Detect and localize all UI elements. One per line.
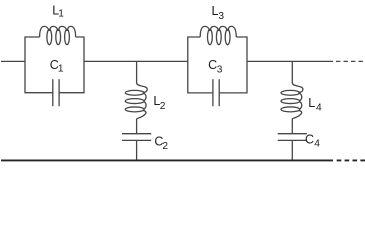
wire: L4 branch top lead (291, 61, 293, 83)
capacitor C4 (278, 134, 307, 141)
capacitor C3 (213, 79, 219, 106)
wire: L2 branch top lead (136, 61, 138, 83)
svg-text:C: C (305, 133, 314, 147)
inductor L4 (281, 83, 303, 119)
svg-text:2: 2 (162, 141, 168, 152)
svg-text:1: 1 (58, 9, 64, 20)
svg-text:L: L (308, 96, 315, 110)
wire: bottom rail (1, 159, 333, 161)
svg-text:3: 3 (218, 11, 224, 22)
wire: tank 2 loop (L3/C3 frame) (188, 37, 247, 93)
svg-text:2: 2 (160, 101, 166, 112)
wire: top rail dashed continuation (336, 60, 365, 62)
svg-text:4: 4 (316, 103, 322, 114)
wire: C2 to bottom rail lead (136, 140, 138, 160)
capacitor C1 (53, 79, 59, 106)
capacitor C2 (122, 134, 151, 141)
svg-text:4: 4 (314, 139, 320, 150)
svg-text:3: 3 (217, 64, 223, 75)
wire: tank 1 loop (L1/C1 frame) (25, 37, 84, 93)
wire: C4 to bottom rail lead (291, 140, 293, 160)
wire: input lead (1, 60, 25, 62)
wire: bottom rail dashed continuation (337, 159, 365, 161)
inductor L2 (125, 83, 147, 119)
wire: top rail tank2 to L4 branch and beyond (247, 60, 333, 62)
wire: top rail tank1 to tank2 (84, 60, 188, 62)
wire: L2 to C2 lead (136, 119, 138, 134)
inductor L1 (40, 26, 76, 44)
inductor L3 (200, 26, 236, 44)
svg-text:1: 1 (58, 64, 64, 75)
wire: L4 to C4 lead (291, 119, 293, 134)
